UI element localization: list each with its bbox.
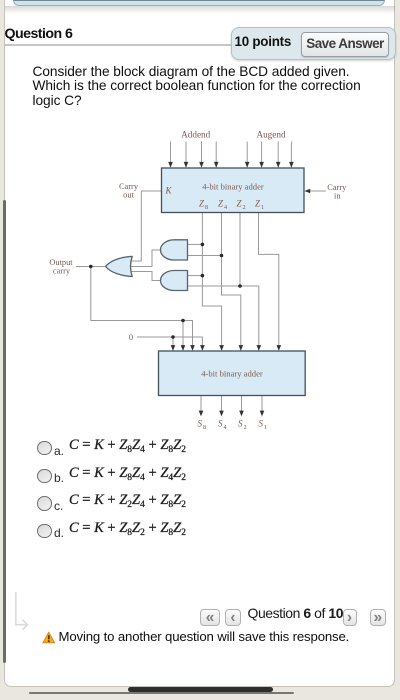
- 4-bit binary adder bottom box U2: [159, 351, 306, 396]
- svg-text:in: in: [334, 192, 341, 201]
- option d: [37, 524, 52, 539]
- wire 0 line: [137, 337, 202, 346]
- node Z8-AND2: [201, 274, 205, 278]
- node Z2-AND2: [238, 284, 242, 288]
- wire top input arrows: [171, 142, 292, 163]
- OR gate (points left): [106, 256, 133, 276]
- svg-text:S: S: [218, 419, 223, 429]
- nav label: [248, 605, 344, 621]
- svg-text:2: 2: [243, 204, 246, 211]
- bottom dark bar: [128, 687, 273, 693]
- svg-text:8: 8: [205, 204, 208, 211]
- svg-text:Addend: Addend: [181, 130, 210, 140]
- nav button next: [343, 609, 357, 627]
- svg-text:1: 1: [264, 424, 267, 431]
- wire carry-in: [309, 190, 326, 192]
- nav button first: [200, 609, 220, 627]
- heading underline: [5, 44, 231, 45]
- arrowheads into adder2: [171, 345, 176, 351]
- svg-text:out: out: [123, 191, 134, 200]
- node 0 to adder2: [171, 335, 175, 339]
- sum labels: [198, 419, 268, 432]
- wire output carry from OR tip to label: [76, 266, 106, 268]
- node carry to adder2: [181, 319, 185, 323]
- nav button prev: [225, 609, 241, 627]
- 10 points box: [231, 27, 396, 60]
- svg-text:Augend: Augend: [256, 130, 285, 140]
- svg-text:4: 4: [224, 424, 227, 431]
- 4-bit binary adder top box U1: [162, 168, 305, 213]
- svg-text:1: 1: [261, 204, 264, 211]
- wires: [76, 142, 326, 412]
- warning triangle icon: [42, 631, 56, 645]
- wire carry branch: [182, 321, 184, 347]
- arrowhead carry-in: [304, 189, 310, 194]
- option c: [37, 496, 52, 511]
- svg-text:carry: carry: [53, 267, 71, 276]
- arrowheads sum outputs: [199, 411, 204, 417]
- svg-text:0: 0: [129, 333, 133, 342]
- option a: [37, 441, 52, 456]
- bottom gray line: [29, 692, 294, 694]
- wire AND1 output to OR: [128, 250, 160, 267]
- svg-text:S: S: [238, 419, 243, 429]
- arrowheads top adder inputs: [168, 162, 173, 168]
- warning text: [59, 629, 350, 644]
- wire AND1 input2 to Z4: [188, 255, 222, 257]
- node output carry branch: [89, 265, 93, 269]
- Question 6 heading: [5, 26, 73, 42]
- AND gate G1 (points left): [161, 240, 188, 260]
- nav button last: [370, 609, 386, 627]
- wire carry-out K from adder1 to OR input: [130, 191, 162, 261]
- wire Z2: [239, 213, 241, 287]
- wire Z8: [202, 213, 221, 347]
- AND gate G2 (points left): [161, 271, 188, 291]
- wire AND1 input1 to Z8: [188, 243, 203, 245]
- wire AND2 input1 to Z8: [188, 275, 203, 277]
- svg-text:4-bit binary adder: 4-bit binary adder: [201, 369, 263, 379]
- svg-text:4-bit binary adder: 4-bit binary adder: [202, 182, 264, 192]
- wire Z4: [222, 213, 241, 347]
- svg-text:K: K: [165, 186, 173, 196]
- wire Z1: [259, 213, 279, 347]
- junction dots: [89, 243, 242, 339]
- bottom-left redirect arrow: [12, 590, 34, 632]
- top blue toolbar remnant: [5, 6, 395, 14]
- svg-text:2: 2: [244, 424, 247, 431]
- svg-text:S: S: [259, 419, 264, 429]
- wire sum outputs: [201, 396, 262, 412]
- left scrollbar: [3, 200, 6, 663]
- wire 0 branch: [172, 337, 174, 346]
- wire output carry down and right to adder2: [91, 267, 193, 347]
- wire AND2 output to OR: [129, 272, 160, 281]
- node Z8-AND1: [201, 243, 205, 247]
- svg-text:8: 8: [203, 424, 206, 431]
- node Z4-AND1: [220, 254, 224, 258]
- svg-text:4: 4: [224, 204, 227, 211]
- question text: [33, 65, 378, 109]
- option b: [37, 469, 52, 484]
- wire AND2 input2 along Z2 jog: [188, 286, 259, 346]
- svg-text:S: S: [198, 419, 203, 429]
